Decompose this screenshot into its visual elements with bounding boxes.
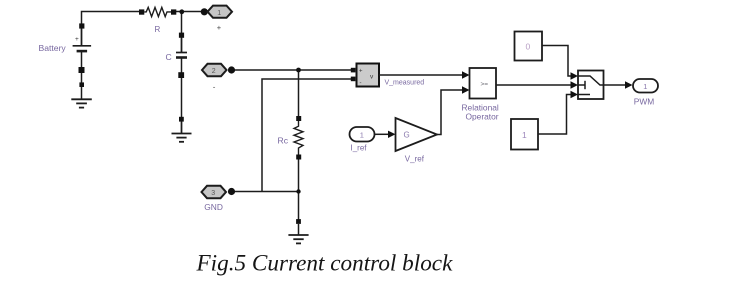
port GND hexagon (202, 186, 236, 212)
svg-text:1: 1 (522, 130, 527, 140)
port 2 hexagon (-) (202, 64, 235, 92)
wire relational-to-switch (496, 81, 578, 88)
node A junction (179, 9, 184, 14)
wire Rc-to-ground (298, 158, 300, 221)
wire Vmeasured-to-relational (379, 71, 470, 78)
svg-text:1: 1 (217, 10, 221, 17)
capacitor C (166, 33, 188, 78)
outport PWM (633, 79, 658, 106)
svg-text:R: R (155, 25, 161, 34)
ground G3 (under Rc) (288, 219, 308, 243)
svg-text:2: 2 (212, 68, 216, 75)
wire switch-to-PWM (604, 81, 633, 88)
inport I_ref (350, 127, 375, 153)
svg-text:+: + (217, 23, 222, 32)
wire constant0-to-switch (542, 46, 578, 80)
svg-text:>=: >= (481, 81, 489, 88)
svg-text:PWM: PWM (634, 96, 654, 106)
port 1 hexagon (+) (208, 6, 233, 32)
battery Battery (39, 23, 92, 83)
wire Vmeasured - branch (262, 79, 353, 192)
svg-text:+: + (75, 36, 79, 43)
svg-text:3: 3 (211, 190, 215, 197)
resistor Rc (278, 116, 304, 160)
svg-text:+: + (359, 69, 363, 75)
wire R-to-node-A (176, 11, 208, 13)
svg-text:Rc: Rc (278, 136, 289, 146)
constant 0 (515, 32, 543, 61)
ground G1 (battery) (71, 82, 92, 107)
svg-text:1: 1 (360, 131, 364, 140)
svg-text:Fig.5 Current control block: Fig.5 Current control block (196, 251, 454, 277)
wire capacitor-to-ground (181, 58, 183, 134)
ground G2 (capacitor) (172, 117, 192, 142)
block switch (578, 71, 604, 100)
svg-text:-: - (213, 83, 216, 92)
block relational operator >= (462, 68, 499, 121)
wire node-A-to-capacitor (181, 12, 183, 53)
svg-text:Operator: Operator (466, 111, 499, 121)
wire constant1-to-switch (538, 91, 578, 134)
svg-text:GND: GND (204, 202, 223, 212)
gain V_ref (triangle G) (396, 118, 438, 164)
svg-text:0: 0 (526, 42, 531, 52)
svg-text:-: - (360, 81, 362, 87)
svg-text:G: G (404, 131, 410, 140)
wire node-B-down-Rc (298, 70, 300, 118)
svg-text:I_ref: I_ref (351, 144, 368, 153)
constant 1 (511, 119, 538, 150)
wire port2-to-Vmeasured + (234, 69, 353, 71)
svg-text:V_ref: V_ref (405, 155, 425, 164)
svg-text:V_measured: V_measured (385, 80, 425, 87)
node D dot before port 1 (201, 8, 208, 15)
svg-text:Battery: Battery (39, 43, 67, 53)
wire GND-port-to-node-C (234, 191, 299, 193)
resistor R (139, 7, 176, 34)
svg-text:1: 1 (643, 82, 647, 91)
wire I_ref-to-gain (375, 131, 396, 138)
block V_measured (voltage measurement) (351, 64, 424, 87)
wire gain-to-relational (437, 86, 470, 134)
node B junction on port2 wire (296, 68, 301, 73)
wire battery-to-R top (82, 12, 140, 46)
node C junction GND wire (296, 189, 300, 193)
svg-text:C: C (166, 52, 172, 62)
